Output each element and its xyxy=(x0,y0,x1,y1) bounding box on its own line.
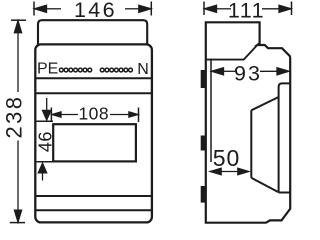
dim 238 extension ticks xyxy=(10,20,26,222)
dim 46 arrows (outside) xyxy=(38,98,51,181)
mounting tab 2 xyxy=(201,136,206,151)
svg-text:PE: PE xyxy=(37,61,58,78)
body lower line 1 xyxy=(35,195,152,197)
dim 46 extension lines xyxy=(37,121,54,162)
svg-text:50: 50 xyxy=(213,145,241,171)
front view body xyxy=(35,44,152,222)
dim 108 extension ticks xyxy=(51,108,138,123)
side view cover mouth top diagonal xyxy=(251,97,278,110)
svg-text:46: 46 xyxy=(35,131,55,152)
svg-text:238: 238 xyxy=(2,95,27,139)
mounting tab 1 xyxy=(201,70,206,88)
dim 238 line + arrows xyxy=(14,21,21,222)
side view cover bottom ledge xyxy=(279,192,291,194)
dim 111 line + arrows xyxy=(205,5,292,12)
window cutout 108x46 xyxy=(53,124,136,161)
side view cover front edge xyxy=(279,83,291,192)
svg-text:146: 146 xyxy=(74,0,117,22)
dim 111 extension ticks xyxy=(204,2,292,16)
side view cover mouth left edge xyxy=(250,110,252,178)
dim 146 line + arrows xyxy=(35,5,151,12)
dim 50 double arrow xyxy=(210,168,249,175)
dim 146 extension ticks xyxy=(34,2,151,16)
svg-text:108: 108 xyxy=(78,103,109,123)
body line under PE row xyxy=(35,77,152,79)
side view lid seam xyxy=(206,45,257,60)
terminal circles group 2 xyxy=(100,68,132,72)
side view outline xyxy=(206,22,290,222)
dim 93 extension line xyxy=(210,59,212,163)
side view cover mouth bottom diagonal xyxy=(251,178,278,193)
terminal circles group 1 xyxy=(59,68,91,72)
dim 93 line + arrows xyxy=(212,68,290,75)
mounting tab 3 xyxy=(201,186,206,203)
body line 2 xyxy=(35,92,152,94)
front view lid xyxy=(38,20,147,45)
dim 108 line + arrows xyxy=(52,112,138,117)
svg-text:93: 93 xyxy=(234,62,262,86)
svg-text:N: N xyxy=(137,61,149,78)
body lower line 2 xyxy=(35,209,152,211)
svg-text:111: 111 xyxy=(228,0,265,23)
